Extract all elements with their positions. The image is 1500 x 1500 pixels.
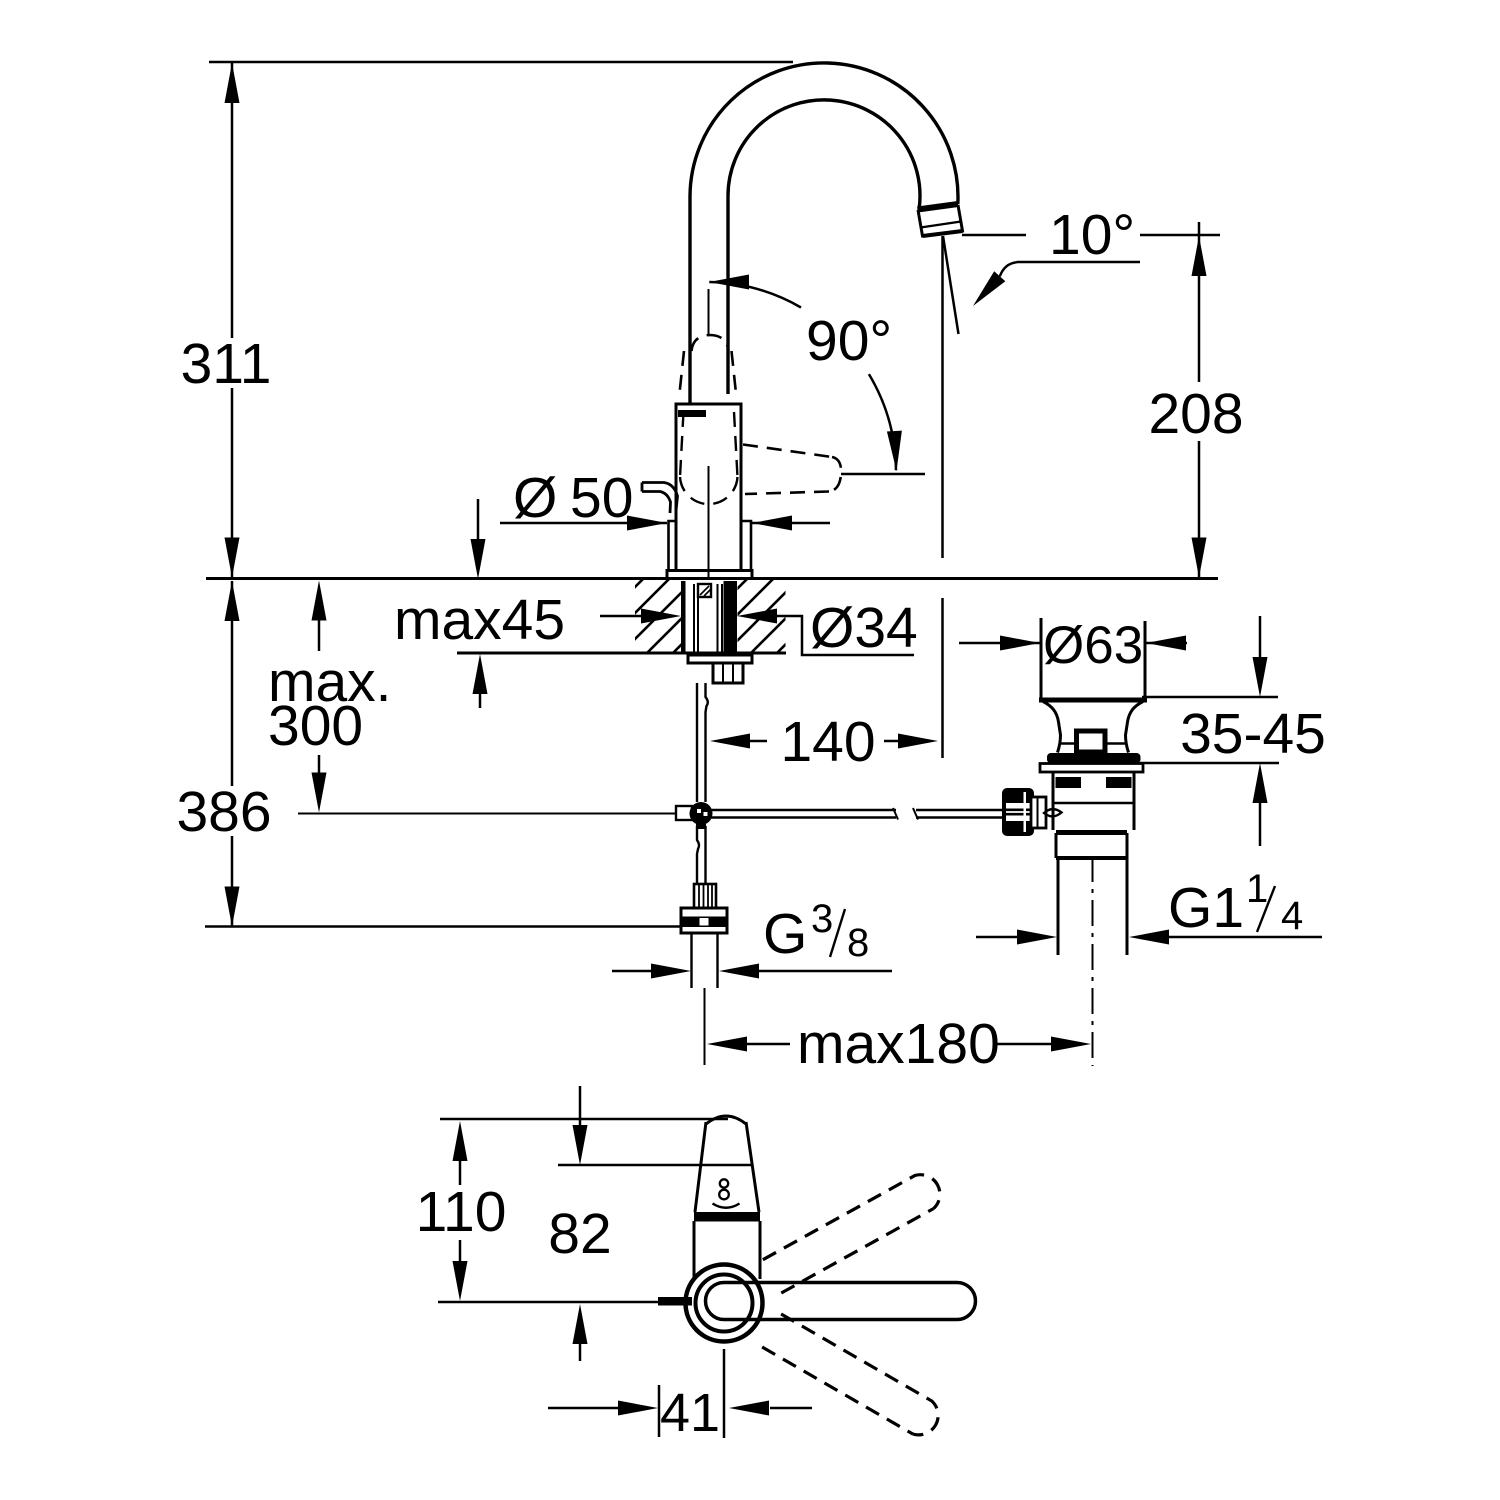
drain cup left wall xyxy=(1040,618,1043,698)
body skirt left xyxy=(669,521,677,571)
dim 41 ref line left xyxy=(658,1385,661,1437)
dim G38 arrow left xyxy=(651,964,691,979)
svg-text:G: G xyxy=(763,902,807,966)
svg-text:386: 386 xyxy=(176,780,271,844)
dim G114 line left xyxy=(976,936,1017,939)
drain flange plate xyxy=(1040,764,1143,773)
svg-text:3: 3 xyxy=(811,897,833,941)
dim 208 top reference line xyxy=(1140,234,1220,237)
90 deg arc arrow upper xyxy=(709,275,749,290)
top reference line at spout height xyxy=(209,61,793,63)
hose lower left line xyxy=(697,826,699,884)
svg-text:35-45: 35-45 xyxy=(1180,702,1326,766)
dim max180 arrow left xyxy=(707,1037,747,1052)
dim max300 arrow bottom xyxy=(312,773,327,813)
aerator inner line xyxy=(921,222,962,228)
dim 311 line upper xyxy=(231,63,234,338)
dim 35-45 arrow top xyxy=(1253,657,1268,697)
body skirt right xyxy=(741,521,751,571)
mounting stud block xyxy=(698,584,711,597)
cartridge bottom dashed arc xyxy=(680,477,738,504)
drain center line dash-dot xyxy=(1092,856,1094,1066)
body lever pin bar xyxy=(678,410,706,417)
svg-text:1: 1 xyxy=(1246,867,1268,911)
countertop top surface line xyxy=(206,577,1218,580)
valve outlet left line xyxy=(690,933,692,988)
top view body sides xyxy=(693,1221,696,1279)
svg-text:8: 8 xyxy=(847,921,869,965)
pull rod reference line xyxy=(298,813,676,815)
drain neck left xyxy=(1043,702,1061,753)
shank right black bar xyxy=(724,581,738,653)
drain overflow slots xyxy=(1056,777,1082,788)
dim 41 arrow right xyxy=(729,1401,769,1416)
90 deg arc lower segment xyxy=(869,374,896,470)
svg-text:10°: 10° xyxy=(1049,203,1135,267)
svg-text:41: 41 xyxy=(660,1383,720,1443)
dim O34 arrow right xyxy=(737,609,777,624)
dim 41 line right xyxy=(770,1407,812,1410)
90 deg arc arrow lower xyxy=(887,431,904,472)
pull rod left segment xyxy=(710,809,896,811)
dim O63 line left xyxy=(959,642,1040,645)
shank left black bar xyxy=(681,581,686,653)
top view handle axis line xyxy=(438,1301,658,1304)
dim max180 arrow right xyxy=(1051,1037,1091,1052)
top view handle lever xyxy=(706,1283,976,1320)
dim O50 arrow right xyxy=(752,516,792,531)
valve outlet right line xyxy=(716,933,718,988)
pull rod right segment xyxy=(916,809,1005,811)
dim 140 arrow right xyxy=(898,734,938,749)
dim G38 arrow right xyxy=(719,964,759,979)
faucet axis center line below valve xyxy=(704,988,706,1065)
supply pipe lines in shank xyxy=(693,584,695,655)
dim 110 line upper xyxy=(459,1150,462,1185)
aerator bottom edge xyxy=(923,231,963,236)
base plate xyxy=(667,571,752,580)
svg-text:90°: 90° xyxy=(806,309,892,373)
svg-text:G1: G1 xyxy=(1168,876,1244,940)
dim 82 shaft top xyxy=(579,1086,582,1127)
rod coupling barrel xyxy=(1031,797,1046,828)
drain body joint line xyxy=(1053,802,1134,804)
drain cup bottom band xyxy=(1039,698,1147,703)
hose upper right line xyxy=(706,683,708,802)
check valve body xyxy=(681,908,727,933)
10 deg leader line xyxy=(1000,262,1140,276)
dim max45 shaft bottom xyxy=(479,694,482,708)
top view joint band xyxy=(694,1212,760,1222)
dim 35-45 arrow bottom xyxy=(1253,763,1268,803)
dim 140 arrow left xyxy=(710,734,750,749)
svg-text:208: 208 xyxy=(1148,382,1243,446)
dim O50 line left xyxy=(500,522,667,525)
dim max45 arrow bottom xyxy=(473,654,488,694)
dim max300 arrow top xyxy=(312,581,327,621)
countertop bottom line xyxy=(457,652,786,655)
dim O34 leader xyxy=(777,616,914,655)
top view inner circle xyxy=(696,1275,753,1332)
svg-text:Ø63: Ø63 xyxy=(1043,616,1143,675)
dim 41 line left xyxy=(548,1407,618,1410)
countertop hatch left xyxy=(635,580,681,652)
dim 386 arrow top xyxy=(225,581,240,621)
washer below counter xyxy=(688,655,752,663)
dim 35-45 ref line upper xyxy=(1142,696,1278,699)
dim max300 line upper xyxy=(318,620,321,651)
dim 386 arrow bottom xyxy=(225,887,240,927)
dim 208 line lower xyxy=(1198,441,1201,577)
drain gasket xyxy=(1047,753,1141,764)
10 deg leader arrow xyxy=(967,271,1005,311)
faucet center line above handle xyxy=(708,289,710,335)
svg-text:110: 110 xyxy=(416,1180,507,1244)
top view ref line spout tip xyxy=(440,1118,728,1121)
dim O50 arrow left xyxy=(627,516,667,531)
dim max300 line lower xyxy=(318,755,321,775)
top view smile arc xyxy=(713,1204,740,1208)
dim 208 arrow top xyxy=(1192,236,1207,276)
dim 208 line upper xyxy=(1198,222,1201,382)
dim O34 line left xyxy=(600,615,641,618)
dim 82 shaft bottom xyxy=(579,1344,582,1361)
aerator body xyxy=(918,205,963,236)
top view detail circles xyxy=(720,1179,728,1187)
dim 311 arrow top xyxy=(225,63,240,103)
dim O63 line right xyxy=(1146,642,1187,645)
rotated handle reference line xyxy=(841,473,925,476)
90 deg arc upper segment xyxy=(709,282,801,308)
handle left edge dashed xyxy=(679,351,684,398)
drain plug square xyxy=(1077,731,1106,752)
spout inner contour xyxy=(728,100,920,394)
pop-up rod knob hook xyxy=(642,483,678,514)
dim G114 arrow left xyxy=(1017,930,1057,945)
body center line xyxy=(708,466,710,579)
svg-text:82: 82 xyxy=(548,1202,611,1266)
top view handle dashed lower position xyxy=(762,1314,938,1435)
top view rod knob xyxy=(658,1297,692,1306)
handle right edge dashed xyxy=(732,351,737,398)
svg-text:140: 140 xyxy=(780,710,875,774)
svg-text:max180: max180 xyxy=(797,1012,1000,1076)
dim O34 arrow left xyxy=(641,609,681,624)
svg-text:50: 50 xyxy=(570,466,633,530)
10 deg reference line xyxy=(962,234,1026,237)
svg-text:300: 300 xyxy=(268,694,363,758)
dim max45 arrow top xyxy=(471,539,486,579)
top view handle dashed upper position xyxy=(763,1175,940,1293)
dim 41 ref line right xyxy=(723,1349,726,1438)
spray axis vertical line upper xyxy=(941,236,944,558)
hose lower right line xyxy=(704,826,706,884)
dim 110 arrow top xyxy=(453,1121,468,1161)
aerator joint band xyxy=(918,204,959,210)
rod clevis lens xyxy=(1044,809,1062,816)
drain waist ticks xyxy=(1059,742,1076,745)
dim 35-45 shaft bottom xyxy=(1259,803,1262,846)
rotated handle top edge dashed xyxy=(743,445,832,458)
countertop hatch right xyxy=(738,580,786,652)
drain body sides xyxy=(1052,772,1055,830)
dim max180 line left xyxy=(747,1043,790,1046)
top view spout cone left xyxy=(695,1122,706,1212)
dim O63 arrow right xyxy=(1146,636,1186,651)
dim 386 line lower xyxy=(231,836,234,926)
dim 311 arrow bottom xyxy=(225,538,240,578)
dim 386 bottom reference line xyxy=(205,925,682,928)
dim 110 line lower xyxy=(459,1240,462,1265)
top view spout dome xyxy=(706,1116,746,1124)
dim 311 line lower xyxy=(231,388,234,577)
svg-text:max45: max45 xyxy=(394,588,565,652)
svg-text:4: 4 xyxy=(1281,894,1303,938)
drain neck right xyxy=(1126,702,1144,753)
dim 35-45 shaft top xyxy=(1259,616,1262,658)
rotated handle bottom edge dashed xyxy=(745,492,829,495)
drain body bottom band xyxy=(1056,830,1127,835)
dim G38 line left xyxy=(612,970,651,973)
ball joint xyxy=(690,802,713,825)
dim G114 line right xyxy=(1169,936,1322,939)
dim G114 arrow right xyxy=(1129,930,1169,945)
cartridge right dashed xyxy=(734,412,738,477)
top view ref line body front xyxy=(558,1164,752,1167)
rod coupling knurled nut xyxy=(1004,790,1032,834)
top view outer circle xyxy=(686,1265,763,1342)
dim 208 arrow bottom xyxy=(1192,538,1207,578)
dim G38 line right xyxy=(759,970,892,973)
mounting nut xyxy=(713,663,743,683)
dim 35-45 ref line lower xyxy=(1140,762,1279,765)
svg-text:Ø34: Ø34 xyxy=(810,596,918,660)
handle dome dashed xyxy=(692,335,729,351)
top view spout cone right xyxy=(746,1122,759,1212)
dim 41 arrow left xyxy=(618,1401,658,1416)
dim O63 arrow left xyxy=(1000,636,1040,651)
spray axis vertical line lower xyxy=(941,598,944,758)
dim 140 line left xyxy=(750,740,767,743)
check valve threads xyxy=(694,884,716,908)
spout outer contour xyxy=(690,63,958,403)
dim max180 line right xyxy=(993,1043,1051,1046)
dim 82 arrow bottom xyxy=(573,1304,588,1344)
hose upper left line xyxy=(696,683,698,802)
drain tailpipe xyxy=(1057,858,1060,955)
dim 386 line upper xyxy=(231,581,234,786)
dim 140 line right xyxy=(884,740,901,743)
dim max45 shaft top xyxy=(477,499,480,541)
svg-text:Ø: Ø xyxy=(513,466,557,530)
dim 110 arrow bottom xyxy=(453,1261,468,1301)
drain cup right wall xyxy=(1144,621,1147,698)
rotated handle tip cap dashed xyxy=(829,457,841,492)
dim 82 arrow top xyxy=(573,1125,588,1165)
body outline xyxy=(676,404,741,570)
spray direction line tilted 10 deg xyxy=(943,236,959,334)
svg-text:311: 311 xyxy=(181,332,272,396)
rod end fitting xyxy=(676,806,692,820)
dim O50 line right xyxy=(752,522,830,525)
cartridge left dashed xyxy=(680,412,684,477)
